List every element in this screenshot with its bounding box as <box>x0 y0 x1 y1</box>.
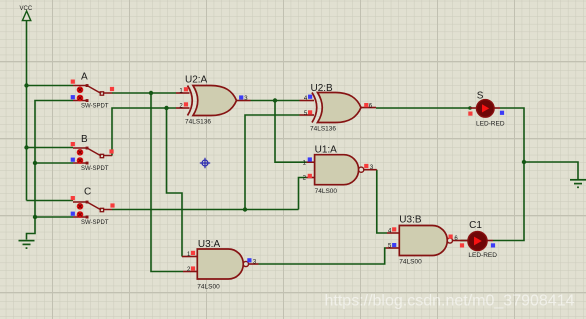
switch C SW-SPDT <box>71 187 115 226</box>
svg-text:A: A <box>81 72 88 83</box>
svg-text:U3:B: U3:B <box>399 214 422 225</box>
svg-text:74LS00: 74LS00 <box>315 188 338 195</box>
svg-text:74LS136: 74LS136 <box>185 119 211 126</box>
svg-text:U2:A: U2:A <box>185 75 208 86</box>
wire ground rail <box>27 101 74 240</box>
svg-text:SW-SPDT: SW-SPDT <box>81 166 109 172</box>
NAND gate U1:A 74LS00 <box>303 145 377 195</box>
node GND/B junction <box>33 161 37 165</box>
wire U2:B out to LED S <box>376 107 471 109</box>
switch A SW-SPDT <box>71 72 114 110</box>
wire branch to right ground <box>524 162 578 180</box>
ground left <box>19 241 35 249</box>
svg-text:https://blog.csdn.net/m0_37908: https://blog.csdn.net/m0_37908414 <box>325 293 575 310</box>
node S pin dot <box>468 106 472 110</box>
wire GND to switch C bottom throw <box>35 216 73 218</box>
wire B net: switch B common riser to U2:A pin2 <box>112 108 176 156</box>
svg-text:LED-RED: LED-RED <box>468 252 497 259</box>
wire U2:A out to U2:B pin4 <box>251 100 300 102</box>
wire C net: switch C common to right <box>112 209 299 211</box>
node right branch junction <box>522 160 526 164</box>
node B junction <box>164 106 168 110</box>
XOR gate U2:B 74LS136 <box>300 83 377 133</box>
node GND/C junction <box>33 215 37 219</box>
wire A^B riser to U1:A pin1 <box>275 101 307 163</box>
svg-text:74LS00: 74LS00 <box>197 283 220 290</box>
node VCC/B junction <box>24 145 28 149</box>
svg-text:SW-SPDT: SW-SPDT <box>81 220 109 226</box>
node C junction <box>243 207 247 211</box>
svg-text:SW-SPDT: SW-SPDT <box>81 103 109 109</box>
svg-text:C1: C1 <box>469 220 482 231</box>
svg-text:LED-RED: LED-RED <box>476 120 505 127</box>
wire A net: switch A common to U2:A pin1 <box>112 92 176 94</box>
NAND gate U3:A 74LS00 <box>182 239 259 290</box>
svg-text:C: C <box>84 187 91 198</box>
wire U3:A out to U3:B pin5 <box>259 248 387 264</box>
power VCC <box>20 6 33 20</box>
wire GND to switch B bottom throw <box>35 162 73 164</box>
node VCC/A junction <box>24 83 28 87</box>
LED S LED-RED <box>468 90 505 127</box>
wire B riser to U3:A pin1 <box>167 108 183 257</box>
NAND gate U3:B 74LS00 <box>386 214 461 265</box>
wire U1:A out riser to U3:B pin4 <box>377 170 387 233</box>
wire C riser to U1:A pin2 <box>299 178 307 210</box>
ground right <box>570 180 586 188</box>
wire C riser to U2:B pin5 <box>245 115 300 210</box>
node A junction <box>149 91 153 95</box>
wire U3:B out to LED C1 right segment <box>461 240 469 242</box>
svg-text:74LS00: 74LS00 <box>399 259 422 266</box>
wire VCC rail vertical <box>26 21 28 201</box>
origin marker <box>200 158 210 168</box>
node A^B junction <box>273 98 277 102</box>
wire LED S right down to LED C1 <box>493 108 524 241</box>
XOR gate U2:A 74LS136 <box>176 75 251 126</box>
switch B SW-SPDT <box>71 134 114 172</box>
wire VCC to switch B top throw <box>27 147 74 149</box>
svg-text:74LS136: 74LS136 <box>310 126 336 133</box>
wire A riser to U3:A pin2 <box>151 93 183 272</box>
LED C1 LED-RED <box>460 220 497 259</box>
svg-text:B: B <box>81 134 88 145</box>
wire VCC to switch A top throw <box>27 85 74 87</box>
wire VCC to switch C top throw <box>27 200 74 202</box>
